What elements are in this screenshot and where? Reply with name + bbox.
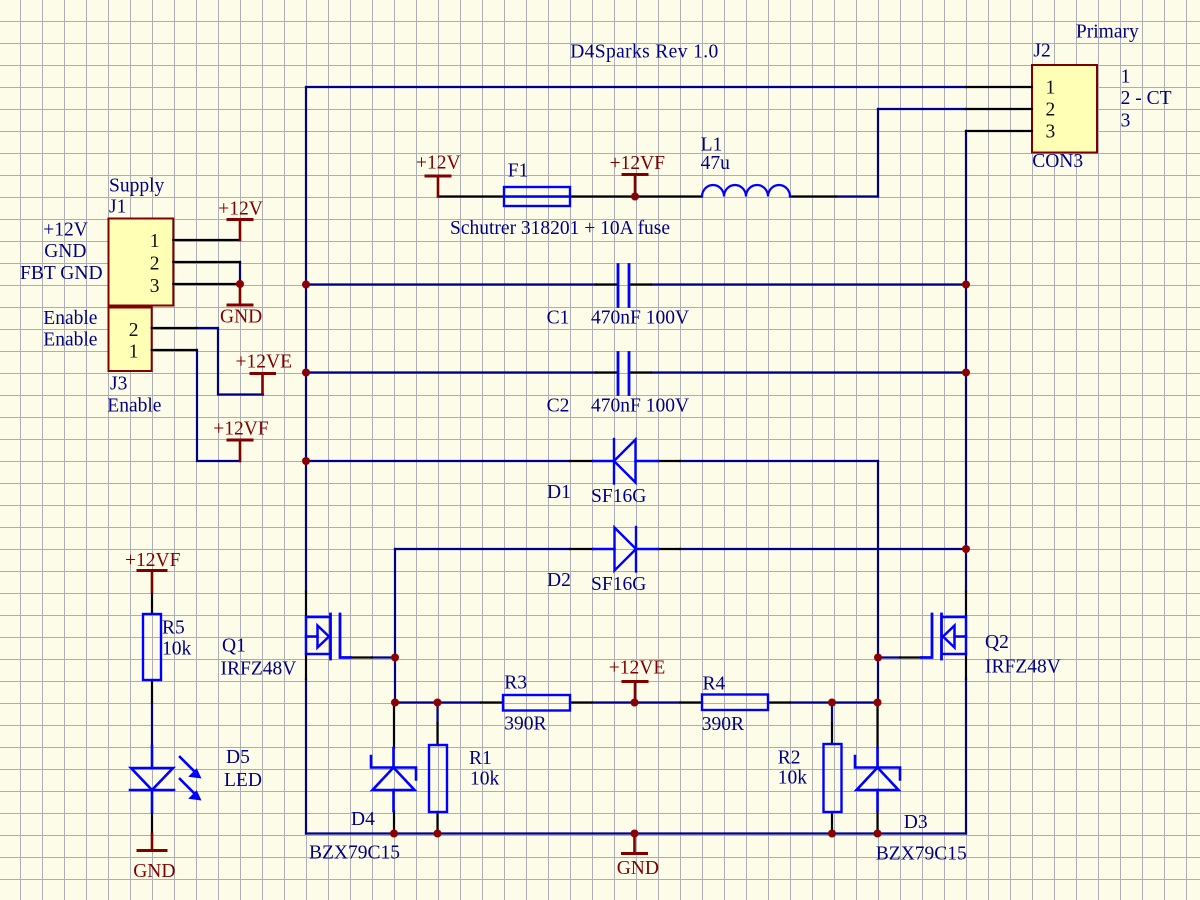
svg-text:470nF 100V: 470nF 100V [591,307,689,328]
wire D1 row left segment [306,460,570,462]
svg-text:IRFZ48V: IRFZ48V [221,659,297,680]
svg-text:R2: R2 [778,748,801,769]
wire D2 row left segment from x=395 [395,548,570,550]
svg-text:1: 1 [1046,78,1056,99]
svg-text:Enable: Enable [107,395,161,416]
resistor R4 pins [680,701,702,703]
power +12VE at J3 [251,374,275,395]
svg-text:R5: R5 [162,618,185,639]
svg-text:Q1: Q1 [222,636,246,657]
junction R3 row x395 [391,699,399,707]
wire C2 row left segment [306,371,596,373]
wire C1 row left segment [306,283,596,285]
wire x=878 vertical pin2 to L1 row [877,109,879,197]
power +12V at F1 [426,176,450,197]
svg-text:LED: LED [224,770,262,791]
svg-text:+12VF: +12VF [213,419,269,440]
svg-text:CON3: CON3 [1032,151,1083,172]
svg-text:470nF 100V: 470nF 100V [591,395,689,416]
wire x=878 vertical D1 row to R3 row [877,461,879,703]
wire R5 to D5 [151,702,153,746]
svg-text:Supply: Supply [109,176,165,197]
wire top bus from left rail to J2 pin1 [306,86,966,88]
svg-text:F1: F1 [508,161,529,182]
connector J3 box [109,308,152,372]
svg-text:Enable: Enable [43,308,97,329]
svg-text:J1: J1 [109,197,126,218]
ground GND at D5 [138,834,166,851]
junction C2 row left [302,369,310,377]
diode D2 body cathode right [593,527,658,572]
svg-text:R3: R3 [504,673,527,694]
power +12V at J1 [228,220,252,241]
svg-text:Primary: Primary [1076,21,1139,42]
wire left rail vertical x=306 [305,87,307,592]
pin J2.3 [966,130,1032,132]
svg-text:D1: D1 [547,482,571,503]
resistor R3 body [503,695,570,711]
junction R2 top [828,699,836,707]
svg-text:+12VF: +12VF [125,550,181,571]
wire R1 top connection [436,703,438,724]
wire x=395 vertical D2 row to R3 row [394,549,396,703]
svg-text:+12V: +12V [43,219,88,240]
svg-text:GND: GND [133,861,175,882]
resistor R5 pins [151,592,153,614]
svg-text:R1: R1 [469,748,492,769]
wire R4 row segment to x=878 [790,701,878,703]
pin J3.2 [152,327,197,329]
junction R2 bottom [828,830,836,838]
resistor R1 body [429,745,447,812]
power +12VE at R3 R4 [623,682,647,703]
zener diode D4 body [371,748,416,811]
junction Q1 gate node [391,654,399,662]
ground GND at bottom bus [623,834,647,854]
svg-text:D4Sparks Rev 1.0: D4Sparks Rev 1.0 [570,42,718,63]
svg-text:IRFZ48V: IRFZ48V [985,657,1061,678]
junction GND bottom [631,830,639,838]
wire L1 output to corner x=878 [836,195,878,197]
svg-text:1: 1 [1121,66,1131,87]
svg-text:390R: 390R [702,714,744,735]
svg-text:10k: 10k [778,768,808,789]
zener diode D3 body [855,748,900,811]
resistor R4 body [702,695,768,711]
wire D2 row right segment [680,548,966,550]
wire bottom bus [306,832,966,834]
wire right rail upper x=966 from J2 pin3 down [965,131,967,592]
capacitor C2 plates [618,353,629,395]
ground GND at J1 [228,284,252,305]
diode D1 body cathode left [593,439,658,484]
transistor Q1 pins [305,592,307,618]
svg-text:1: 1 [150,231,160,252]
svg-text:BZX79C15: BZX79C15 [309,843,400,864]
junction Q2 gate node [874,654,882,662]
svg-text:D3: D3 [904,812,928,833]
svg-text:GND: GND [44,241,86,262]
connector J1 box [109,219,174,306]
junction D1 row left [302,457,310,465]
wire Q1 gate to x=395 rail [372,656,395,658]
svg-text:C1: C1 [547,307,570,328]
svg-text:10k: 10k [162,639,192,660]
wire C2 row right segment [651,371,966,373]
zener diode D4 pins [393,703,395,749]
wire J1 pin2 to GND node [239,262,241,284]
pin J1.2 [173,261,240,263]
svg-text:Schutrer 318201 + 10A fuse: Schutrer 318201 + 10A fuse [450,218,670,239]
resistor R5 body [143,614,161,680]
transistor Q2 pins [965,592,967,618]
junction C1 row right [962,281,970,289]
wire Q2 gate to x=878 rail [878,656,900,658]
resistor R1 pins [436,723,438,745]
fuse F1 body [504,187,570,206]
wire R2 top connection [831,703,833,724]
power +12VF at R5 [138,571,166,593]
svg-text:2: 2 [129,320,139,341]
junction R1 top [434,699,442,707]
svg-text:+12VE: +12VE [609,658,666,679]
svg-text:GND: GND [220,307,262,328]
LED D5 body [130,746,202,812]
wire D1 row right segment to x=878 [680,460,878,462]
wire right rail lower x=966 [965,679,967,834]
wire left rail lower x=306 to bottom bus [305,679,307,834]
svg-text:BZX79C15: BZX79C15 [876,844,967,865]
capacitor C1 pins [596,283,617,285]
svg-text:2: 2 [1046,100,1056,121]
diode D2 pins [570,548,593,550]
resistor R3 pins [481,701,503,703]
wire R3 row segment A [395,701,481,703]
svg-text:2 - CT: 2 - CT [1121,88,1172,109]
junction D4 bottom [390,830,398,838]
svg-text:47u: 47u [701,153,731,174]
inductor L1 pins [636,195,702,197]
svg-text:Enable: Enable [43,330,97,351]
svg-text:D5: D5 [226,747,250,768]
pin J1.3 [173,283,240,285]
power +12VF at F1 [623,175,647,197]
junction R1 bottom [434,830,442,838]
svg-text:3: 3 [150,276,160,297]
svg-text:+12V: +12V [416,153,461,174]
inductor L1 body [702,185,790,197]
capacitor C1 plates [618,265,629,307]
power +12VF at J3 [228,440,252,461]
transistor Q1 body [306,614,351,659]
fuse F1 pins [438,195,504,197]
pin J2.1 [966,86,1032,88]
svg-text:+12V: +12V [218,199,263,220]
wire J3 pin2 to +12VE [197,328,263,395]
diode D1 pins [570,460,593,462]
svg-text:C2: C2 [547,395,570,416]
svg-text:+12VE: +12VE [236,351,293,372]
svg-text:D4: D4 [351,809,375,830]
wire R3 row segment B with +12VE node [592,701,680,703]
resistor R2 body [824,744,842,812]
svg-text:J3: J3 [110,374,127,395]
svg-text:FBT GND: FBT GND [20,263,103,284]
LED D5 pin bottom [151,812,153,834]
zener diode D3 pins [876,703,878,749]
svg-text:3: 3 [1046,121,1056,142]
junction +12VF F1 node [631,193,639,201]
wire J2 pin2 horizontal [878,108,966,110]
wire C1 row right segment [651,283,966,285]
pin J1.1 [173,239,240,241]
junction J1 pin3 GND [236,280,244,288]
junction +12VE node [631,699,639,707]
svg-text:390R: 390R [504,714,546,735]
junction R4 row x878 [874,699,882,707]
pin J2.2 [966,108,1032,110]
transistor Q2 body [922,614,967,659]
capacitor C2 pins [596,371,617,373]
connector J2 box [1032,65,1097,153]
svg-text:Q2: Q2 [985,632,1009,653]
junction D3 bottom [874,830,882,838]
svg-text:1: 1 [129,342,139,363]
svg-text:SF16G: SF16G [591,486,646,507]
wire J3 pin1 to +12VF [197,350,240,461]
junction C2 row right [962,369,970,377]
svg-text:10k: 10k [470,769,500,790]
svg-text:3: 3 [1121,111,1131,132]
svg-text:GND: GND [617,858,659,879]
svg-text:SF16G: SF16G [591,574,646,595]
svg-text:D2: D2 [547,570,571,591]
pin J3.1 [152,349,197,351]
junction C1 row left [302,281,310,289]
svg-text:J2: J2 [1033,41,1050,62]
svg-text:+12VF: +12VF [610,153,666,174]
junction D2 row right [962,545,970,553]
svg-text:2: 2 [150,254,160,275]
resistor R2 pins [831,723,833,744]
svg-text:R4: R4 [703,674,726,695]
